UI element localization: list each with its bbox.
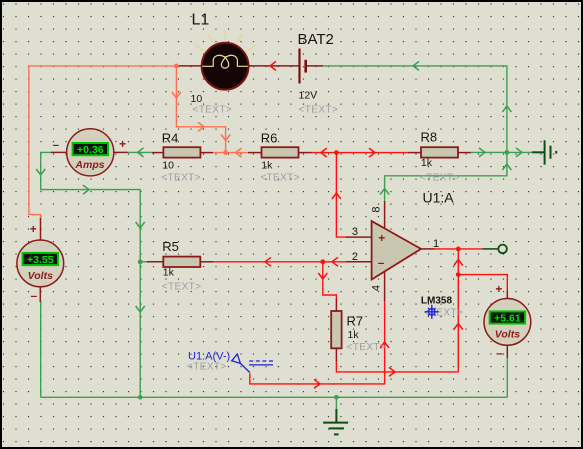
svg-text:12V: 12V <box>299 90 318 102</box>
resistor R8 pins <box>408 152 471 154</box>
label R8 <box>421 130 438 145</box>
wire bottom ground rail <box>41 396 508 398</box>
label R6 <box>261 130 278 145</box>
label R5 <box>162 239 179 254</box>
svg-text:1k: 1k <box>421 157 433 169</box>
wire net P2 junction to pin2 <box>323 261 347 263</box>
resistor R6 pins <box>248 152 312 154</box>
svg-text:2: 2 <box>352 251 358 263</box>
origin marker blue at U1 text <box>425 305 439 319</box>
wire arrow left ammeter-R4 <box>138 148 144 157</box>
svg-text:Volts: Volts <box>28 270 53 282</box>
svg-text:R5: R5 <box>162 239 179 254</box>
value label lamp 10 <box>191 93 203 105</box>
voltmeter V2 top pin <box>506 291 508 300</box>
value label 12V <box>299 90 318 102</box>
svg-text:+0.36: +0.36 <box>77 144 104 156</box>
ammeter minus sign <box>52 138 59 152</box>
svg-text:–: – <box>30 289 37 303</box>
wire net VB lamp junction to R4-R6 junction <box>176 66 225 153</box>
wire net OUT branch to V2 top <box>458 275 507 292</box>
ground symbol bottom <box>323 409 348 434</box>
svg-text:<TEXT>: <TEXT> <box>299 105 339 116</box>
value label R6 1k <box>261 160 273 172</box>
junction node red pin2 <box>320 259 325 264</box>
ammeter Amps label <box>74 159 104 171</box>
op-amp U1 plus mark <box>378 231 385 245</box>
probe label U1:A(V-) <box>188 350 230 362</box>
wire R5 left stub green <box>140 261 149 263</box>
pin number 3 <box>352 226 358 238</box>
svg-text:–: – <box>496 346 503 360</box>
wire arrow left on R5 net <box>265 257 271 266</box>
wire net P3 junction down to pin3 <box>336 153 347 238</box>
svg-text:R6: R6 <box>261 130 278 145</box>
wire net GND arrow left on top rail <box>413 61 419 70</box>
wire net VB arrow right at y127 <box>198 122 204 131</box>
resistor R4 body <box>163 147 200 157</box>
text property R4 <box>161 172 201 183</box>
text property U1 <box>424 308 464 319</box>
svg-text:<TEXT>: <TEXT> <box>161 172 201 183</box>
battery BAT2 right pin <box>307 65 323 67</box>
wire ground stem light <box>335 397 337 409</box>
voltmeter V2 display <box>490 311 525 324</box>
voltmeter V2 body <box>484 299 531 346</box>
wire net P3 R6 right to junction (red) <box>311 152 336 154</box>
ammeter display <box>73 143 108 156</box>
wire arrow left at pin2 <box>332 257 338 266</box>
wire arrow up right column upper <box>454 260 463 266</box>
resistor R8 body <box>421 147 458 157</box>
ammeter plus sign <box>119 137 126 151</box>
wire arrow down left loop <box>36 169 45 175</box>
wire net GNDLOOP ammeter- down (green) <box>41 152 141 397</box>
wire net VB segment R4 right to junction <box>212 152 248 154</box>
wire arrow left at R6 right <box>321 148 327 157</box>
svg-text:–: – <box>52 138 59 152</box>
wire arrow up pin4 column <box>380 342 389 348</box>
svg-text:LM358: LM358 <box>421 296 453 307</box>
output terminal circle <box>498 245 507 254</box>
svg-text:1k: 1k <box>348 329 360 341</box>
junction node green at ground tap <box>334 395 339 400</box>
wire ammeter+ to R4 (green) <box>127 151 152 153</box>
svg-text:+: + <box>495 282 502 296</box>
pin number 4 <box>371 285 383 291</box>
text property R7 <box>347 342 387 353</box>
junction node VB R4/R6 <box>223 150 228 155</box>
wire arrow right loop bottom <box>83 185 89 194</box>
pin number 2 <box>352 251 358 263</box>
wire net GND junction down-left to opamp pin8 <box>385 152 507 201</box>
svg-text:1k: 1k <box>163 267 175 279</box>
wire arrow down x140 upper <box>136 222 145 228</box>
wire net OUT R7 bottom to right column (red) <box>336 360 458 372</box>
wire net VB arrow down at lamp drop <box>172 92 181 98</box>
wire net GND green top rail from battery <box>323 66 507 152</box>
junction node red R6/R8 <box>334 150 339 155</box>
wire arrow up net P3 <box>332 193 341 199</box>
junction node GND right <box>505 150 510 155</box>
voltmeter V1 bottom pin <box>39 286 41 302</box>
svg-text:Volts: Volts <box>495 328 520 340</box>
wire arrow down x140 lower <box>136 306 145 312</box>
junction node green R5 left <box>138 259 143 264</box>
value label LM358 <box>421 296 453 307</box>
value label R5 1k <box>163 267 175 279</box>
voltmeter V1 minus sign <box>30 289 37 303</box>
svg-text:10: 10 <box>191 93 203 105</box>
ground terminal right <box>532 140 556 164</box>
ammeter pins <box>51 151 128 153</box>
label R7 <box>347 314 364 329</box>
svg-text:<TEXT>: <TEXT> <box>162 281 202 292</box>
value label R8 1k <box>421 157 433 169</box>
svg-text:R8: R8 <box>421 130 438 145</box>
junction node red V2 branch <box>456 272 461 277</box>
lamp L1 rays <box>195 30 255 51</box>
text property BAT2 <box>299 105 339 116</box>
wire V2 bottom to rail <box>506 357 508 397</box>
op-amp U1 pin3 stub <box>346 236 372 238</box>
op-amp U1 pin2 stub <box>346 261 372 263</box>
op-amp U1 pin4 stub <box>384 271 386 301</box>
wire net VB top horizontal (lamp+ to left rail) <box>29 66 177 220</box>
svg-text:1: 1 <box>433 238 439 250</box>
wire arrow right probe run <box>314 379 320 388</box>
voltmeter V1 display <box>23 253 58 266</box>
voltmeter V2 bottom pin <box>506 344 508 358</box>
value label R4 10 <box>162 160 174 172</box>
wire net GND arrow up on right drop <box>502 106 511 112</box>
svg-text:+: + <box>30 222 37 236</box>
voltmeter V2 plus sign <box>495 282 502 296</box>
text property R6 <box>260 172 300 183</box>
wire net P3 junction to R8 left <box>336 152 409 154</box>
resistor R7 pins <box>335 299 337 361</box>
wire arrow right after R8 <box>479 148 485 157</box>
svg-text:3: 3 <box>352 226 358 238</box>
lamp L1 pins <box>179 65 250 67</box>
wire arrow right on R7 bottom run <box>389 367 395 376</box>
op-amp U1 minus mark <box>378 255 385 269</box>
output terminal stub dark green <box>482 248 498 250</box>
svg-text:+: + <box>378 231 385 245</box>
label R4 <box>162 130 179 145</box>
svg-text:+3.55: +3.55 <box>27 254 54 266</box>
op-amp U1 pin8 stub <box>384 201 386 229</box>
svg-text:<TEXT>: <TEXT> <box>187 361 227 372</box>
label U1:A <box>423 190 455 206</box>
wire net P2 R5 right to junction (red) <box>212 261 323 263</box>
svg-text:<TEXT>: <TEXT> <box>420 172 460 183</box>
wire net P2 junction down to R7 top <box>323 262 337 300</box>
text property lamp <box>193 105 233 116</box>
junction node VB at lamp left <box>174 64 179 69</box>
probe U1:A(V-) symbol <box>232 354 273 372</box>
wire arrow red at battery left <box>270 61 276 70</box>
svg-text:+: + <box>119 137 126 151</box>
svg-text:BAT2: BAT2 <box>298 31 334 48</box>
svg-text:R7: R7 <box>347 314 364 329</box>
svg-text:<TEXT>: <TEXT> <box>347 342 387 353</box>
voltmeter V2 minus sign <box>496 346 503 360</box>
battery BAT2 plates <box>300 49 306 84</box>
resistor R7 body <box>331 311 341 348</box>
label L1 <box>192 12 210 29</box>
op-amp U1 pin1 stub <box>421 248 434 250</box>
svg-text:10: 10 <box>162 160 174 172</box>
wire net GND arrow right to ground <box>516 148 522 157</box>
resistor R4 pins <box>152 152 213 154</box>
wire net VB arrow down into junction <box>221 135 230 141</box>
svg-text:R4: R4 <box>162 130 179 145</box>
wire lamp to battery (maroon) <box>246 65 299 67</box>
wire arrow up right column lower <box>454 324 463 330</box>
lamp L1 filament <box>203 55 248 68</box>
text property R5 <box>162 281 202 292</box>
wire opamp output to terminal (red part) <box>433 248 482 250</box>
voltmeter V1 Volts label <box>28 270 53 282</box>
junction node red output <box>456 247 461 252</box>
svg-text:8: 8 <box>371 206 383 212</box>
wire R8 right pin to junction (green) <box>470 151 507 153</box>
wire net GND arrow up below junction <box>502 164 511 170</box>
svg-text:Amps: Amps <box>74 159 104 171</box>
svg-text:–: – <box>378 255 385 269</box>
svg-text:U1:A: U1:A <box>423 190 455 206</box>
ammeter AM1 body <box>67 129 114 176</box>
resistor R5 pins <box>147 261 213 263</box>
svg-text:<TEXT>: <TEXT> <box>193 105 233 116</box>
wire net GND arrow up at pin8 <box>380 189 389 195</box>
wire arrow down to R7 <box>318 273 327 279</box>
pin number 1 <box>433 238 439 250</box>
text property R8 <box>420 172 460 183</box>
wire net VB arrow left toward junction <box>236 148 242 157</box>
text property probe <box>187 361 227 372</box>
svg-text:+5.61: +5.61 <box>494 313 521 325</box>
resistor R6 body <box>262 147 299 157</box>
label BAT2 <box>298 31 334 48</box>
voltmeter V2 Volts label <box>495 328 520 340</box>
wire V1 bottom to rail <box>40 301 42 397</box>
svg-text:L1: L1 <box>192 12 210 29</box>
value label R7 1k <box>348 329 360 341</box>
voltmeter V1 top pin <box>40 218 42 241</box>
wire net GND junction to ground terminal <box>507 151 532 153</box>
wire net OUT right column vertical <box>457 249 459 372</box>
svg-text:1k: 1k <box>261 160 273 172</box>
junction node green rail left <box>138 395 143 400</box>
svg-text:<TEXT>: <TEXT> <box>260 172 300 183</box>
voltmeter V1 plus sign <box>30 222 37 236</box>
lamp L1 body <box>202 43 249 90</box>
voltmeter V1 body <box>17 240 64 287</box>
wire arrow right to R8 <box>369 148 375 157</box>
wire probe to pin4 (red) <box>250 300 385 384</box>
pin number 8 <box>371 206 383 212</box>
svg-text:4: 4 <box>371 285 383 291</box>
op-amp U1 body <box>372 221 421 279</box>
resistor R5 body <box>163 257 200 267</box>
